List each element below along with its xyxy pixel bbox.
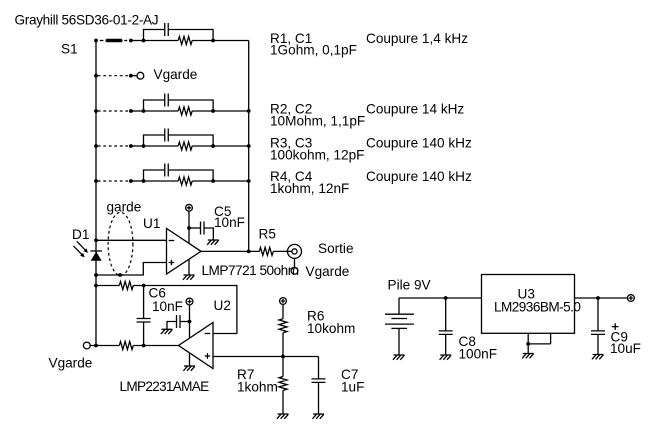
- wire: U3 output: [575, 297, 628, 299]
- wire: U1 non-inverting input: [96, 263, 167, 276]
- junction: [211, 179, 215, 183]
- junction: bus row 3: [94, 144, 98, 148]
- ground: [440, 355, 452, 360]
- svg-text:Vgarde: Vgarde: [154, 67, 198, 82]
- svg-text:garde: garde: [107, 200, 142, 215]
- resistor R7: [279, 377, 287, 391]
- connector Sortie: [288, 244, 302, 258]
- svg-text:Vgarde: Vgarde: [49, 356, 93, 371]
- switch S1 pole 1 (closed contact): [100, 40, 127, 42]
- wire: U2 non-inverting input: [213, 356, 319, 358]
- switch S1 pole 2 (dashed): [98, 110, 130, 112]
- capacitor C5: [201, 222, 205, 235]
- power V+ U2: [186, 298, 193, 305]
- guard ring (dashed): [108, 212, 133, 275]
- resistor (guard input): [119, 342, 133, 350]
- label R3, C3 values: [270, 136, 364, 163]
- wire: [131, 75, 137, 77]
- wire: [144, 145, 249, 147]
- svg-text:100nF: 100nF: [459, 346, 498, 361]
- svg-text:R5: R5: [259, 227, 276, 242]
- svg-text:Sortie: Sortie: [318, 241, 354, 256]
- junction: [188, 320, 192, 324]
- resistor (guard feedback): [119, 282, 133, 290]
- junction: [247, 109, 251, 113]
- wire: left bus: [95, 41, 97, 346]
- junction: bus row 4: [94, 179, 98, 183]
- ground: [312, 414, 324, 419]
- wire: [189, 227, 201, 229]
- resistor R2: [178, 107, 192, 115]
- junction: [142, 179, 146, 183]
- wire: [282, 357, 284, 414]
- power V+ U1: [186, 204, 193, 211]
- power V+ R6: [280, 298, 287, 305]
- terminal Vgarde (shield): [291, 267, 298, 274]
- svg-text:LMP7721 50ohm: LMP7721 50ohm: [202, 263, 299, 278]
- svg-text:LMP2231AMAE: LMP2231AMAE: [120, 379, 210, 394]
- junction: [247, 144, 251, 148]
- ground: [207, 240, 219, 245]
- wire: [204, 228, 213, 240]
- svg-text:10nF: 10nF: [152, 299, 183, 314]
- wire: [597, 298, 599, 354]
- junction: [596, 296, 600, 300]
- svg-text:10kohm: 10kohm: [307, 321, 355, 336]
- wire: [180, 321, 190, 323]
- junction: [211, 144, 215, 148]
- wire: R1C1 frame: [144, 30, 214, 41]
- wire: U2 V- pin: [189, 353, 191, 366]
- capacitor C3: [165, 129, 169, 142]
- junction: guard ring tap: [118, 273, 122, 277]
- svg-text:Vgarde: Vgarde: [306, 264, 350, 279]
- label R2, C2 values: [270, 101, 365, 128]
- svg-text:U1: U1: [143, 216, 160, 231]
- ground: [161, 329, 173, 334]
- op-amp U1: [167, 229, 202, 275]
- junction: [129, 179, 133, 183]
- svg-text:Grayhill 56SD36-01-2-AJ: Grayhill 56SD36-01-2-AJ: [15, 13, 159, 28]
- junction: feedback bus to output: [247, 250, 251, 254]
- wire: U1 inverting input: [96, 239, 167, 241]
- terminal Vgarde (bottom): [83, 342, 90, 349]
- junction: [142, 284, 146, 288]
- svg-text:LM2936BM-5.0: LM2936BM-5.0: [494, 300, 581, 315]
- junction: [142, 344, 146, 348]
- wire: [144, 180, 249, 182]
- terminal Vgarde: [137, 72, 144, 79]
- wire: [144, 110, 249, 112]
- junction: [142, 144, 146, 148]
- switch S1 pole 4 (dashed): [98, 180, 130, 182]
- svg-text:10Mohm, 1,1pF: 10Mohm, 1,1pF: [270, 113, 365, 128]
- label R4, C4 values: [270, 169, 349, 196]
- capacitor C9: [591, 331, 605, 335]
- wire: R2C2 frame: [144, 100, 214, 111]
- svg-text:1kohm, 12nF: 1kohm, 12nF: [270, 181, 349, 196]
- wire: guard feedback: [96, 286, 237, 334]
- wire: U1 output: [201, 250, 292, 252]
- wire: U2 V+ pin: [189, 305, 191, 338]
- svg-text:1Gohm, 0,1pF: 1Gohm, 0,1pF: [270, 43, 357, 58]
- capacitor C7: [312, 379, 326, 383]
- label + polarity: [612, 323, 619, 330]
- resistor R4: [178, 177, 192, 185]
- wire: integrator branch: [143, 286, 145, 346]
- wire: R3C3 frame: [144, 135, 214, 146]
- ground: [393, 355, 405, 360]
- ground: [592, 355, 604, 360]
- junction: bus row 1: [94, 39, 98, 43]
- svg-text:1kohm: 1kohm: [237, 380, 278, 395]
- label R1, C1 values: [270, 31, 357, 58]
- resistor R6: [279, 319, 287, 333]
- svg-text:Pile 9V: Pile 9V: [388, 278, 431, 293]
- junction: [281, 355, 285, 359]
- junction: [142, 39, 146, 43]
- junction: bus bottom: [94, 344, 98, 348]
- junction: bus row 2: [94, 109, 98, 113]
- junction: [129, 74, 133, 78]
- junction: [247, 179, 251, 183]
- wire: U1 V- pin: [188, 259, 190, 275]
- capacitor C8: [439, 331, 453, 335]
- ground: [183, 275, 195, 280]
- wire: [131, 180, 144, 182]
- capacitor C1: [165, 23, 169, 36]
- wire: R4C4 frame: [144, 170, 214, 181]
- resistor R5: [259, 247, 273, 255]
- wire: [445, 298, 447, 355]
- junction: [444, 296, 448, 300]
- svg-text:U2: U2: [214, 298, 231, 313]
- resistor R3: [178, 142, 192, 150]
- photodiode D1: [74, 241, 103, 260]
- junction: [187, 226, 191, 230]
- junction: [211, 39, 215, 43]
- svg-text:Coupure 1,4 kHz: Coupure 1,4 kHz: [366, 31, 468, 46]
- svg-text:Coupure 140 kHz: Coupure 140 kHz: [366, 169, 472, 184]
- wire: U3 ground pins: [528, 333, 550, 353]
- svg-text:S1: S1: [61, 42, 78, 57]
- wire: right bus: [248, 41, 250, 252]
- junction: bus guard feedback row: [94, 284, 98, 288]
- junction: [142, 109, 146, 113]
- capacitor C2: [165, 94, 169, 107]
- wire: [131, 40, 144, 42]
- power +5V output: [628, 295, 635, 302]
- ground: [183, 366, 195, 371]
- junction: guard wire at bus: [94, 273, 98, 277]
- resistor R1: [178, 37, 192, 45]
- wire: [167, 322, 177, 330]
- junction: [129, 109, 133, 113]
- svg-text:10uF: 10uF: [610, 341, 641, 356]
- capacitor C6: [177, 315, 181, 328]
- svg-text:1uF: 1uF: [341, 380, 364, 395]
- wire: [131, 110, 144, 112]
- wire: [282, 304, 284, 356]
- regulator U3: [482, 275, 575, 334]
- wire: [144, 40, 249, 42]
- wire: [131, 145, 144, 147]
- wire: guard input row: [90, 345, 178, 347]
- svg-text:100kohm, 12pF: 100kohm, 12pF: [270, 148, 364, 163]
- wire: connector shield: [294, 258, 296, 267]
- svg-text:10nF: 10nF: [214, 215, 245, 230]
- switch S1 pole 3 (dashed): [98, 145, 130, 147]
- capacitor C4: [165, 164, 169, 177]
- svg-text:D1: D1: [72, 227, 89, 242]
- capacitor (guard integrator): [137, 319, 151, 323]
- wire: [318, 357, 320, 414]
- ground: [522, 354, 534, 359]
- svg-text:Coupure 140 kHz: Coupure 140 kHz: [366, 136, 472, 151]
- junction: [211, 109, 215, 113]
- junction: bus Vgarde row: [94, 74, 98, 78]
- junction: [129, 39, 133, 43]
- junction: U1 inverting node: [94, 238, 98, 242]
- wire: U1 V+ pin: [188, 211, 190, 243]
- battery Pile 9V: [385, 298, 414, 355]
- wire (dashed): [98, 75, 130, 77]
- wire: battery to U3: [399, 297, 482, 299]
- svg-text:Coupure 14 kHz: Coupure 14 kHz: [366, 101, 464, 116]
- junction: [526, 342, 530, 346]
- ground: [277, 414, 289, 419]
- op-amp U2: [179, 323, 214, 369]
- junction: [129, 144, 133, 148]
